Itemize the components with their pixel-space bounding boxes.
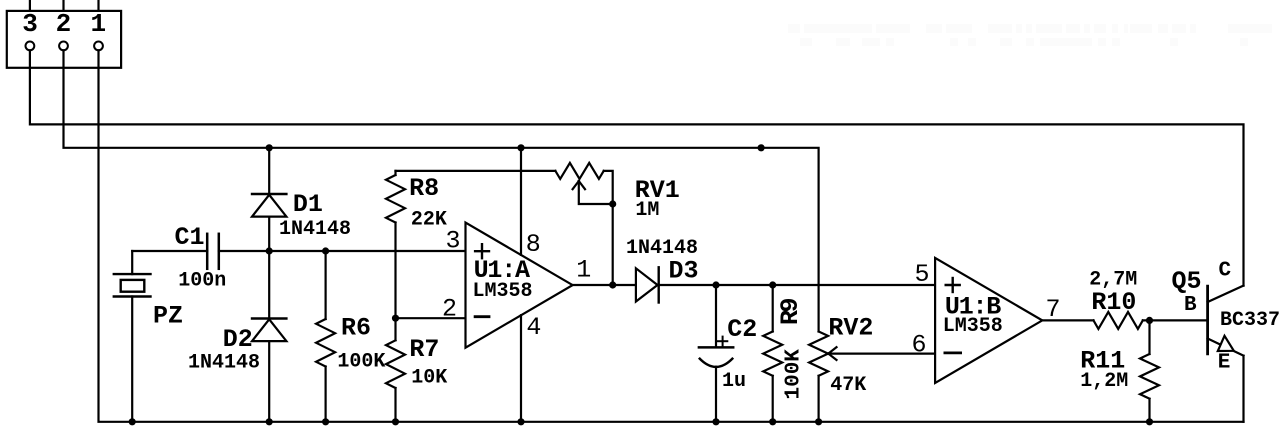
wire U1:A output to D3	[573, 284, 636, 286]
label 100K (R9)	[783, 349, 806, 400]
svg-text:4: 4	[526, 313, 541, 342]
piezo PZ	[114, 274, 151, 422]
op-amp U1:B minus sign	[945, 351, 961, 354]
connector pad 3	[26, 42, 35, 51]
node rail RV2	[815, 418, 822, 425]
svg-text:2: 2	[56, 9, 72, 39]
svg-text:2,7M: 2,7M	[1089, 269, 1137, 292]
wire PZ to C1	[132, 250, 207, 252]
svg-text:1N4148: 1N4148	[626, 237, 698, 260]
label R8	[409, 174, 439, 203]
svg-text:3: 3	[22, 9, 38, 39]
pin number 3 (U1:A)	[445, 227, 460, 256]
wire R10 to Q5 base	[1143, 319, 1208, 321]
node output/C2	[712, 281, 719, 288]
node rail C2	[712, 418, 719, 425]
svg-text:BC337: BC337	[1220, 309, 1280, 332]
label 1,2M	[1080, 370, 1128, 393]
node bus2 mid junction	[758, 144, 765, 151]
svg-text:3: 3	[445, 227, 460, 256]
label RV1	[635, 176, 680, 205]
label 47K	[830, 374, 866, 397]
svg-text:R9: R9	[776, 298, 805, 325]
connector pad 2	[59, 42, 68, 51]
transistor Q5	[1208, 286, 1244, 422]
label 1N4148 (D3)	[626, 237, 698, 260]
svg-text:100n: 100n	[178, 270, 226, 293]
svg-text:2: 2	[442, 295, 457, 324]
pin number 8 (U1:A)	[526, 230, 541, 259]
wire pin2 bus to RV2	[64, 50, 819, 331]
resistor R9	[763, 285, 782, 422]
connector pad 1	[94, 42, 103, 51]
node D1 top / bus2	[266, 144, 273, 151]
wire RV1 to output node	[612, 204, 614, 285]
pin number 2 label	[56, 9, 72, 39]
op-amp U1:A plus sign	[475, 244, 489, 258]
label 1u	[722, 370, 746, 393]
node rail R7	[392, 418, 399, 425]
pin letter C	[1219, 260, 1232, 283]
watermark text (faint)	[788, 24, 1272, 46]
label 100n	[178, 270, 226, 293]
svg-text:100K: 100K	[783, 349, 806, 400]
svg-text:Q5: Q5	[1172, 267, 1202, 296]
wire PZ top lead	[131, 251, 133, 274]
svg-text:PZ: PZ	[153, 301, 183, 330]
pin number 7 (U1:B)	[1046, 295, 1061, 324]
svg-text:D1: D1	[293, 190, 323, 219]
pin number 6 (U1:B)	[911, 331, 926, 360]
pin letter E	[1218, 352, 1231, 375]
svg-text:1: 1	[90, 9, 106, 39]
capacitor C2	[699, 285, 733, 422]
connector pin stub 2	[62, 0, 64, 11]
svg-text:47K: 47K	[830, 374, 866, 397]
label Q5	[1172, 267, 1202, 296]
connector pin stub 3	[29, 0, 31, 11]
label PZ	[153, 301, 183, 330]
wire pin3 to Q5 collector (top bus)	[30, 50, 1244, 285]
node R7/R8 pin2	[392, 315, 399, 322]
svg-text:R6: R6	[341, 314, 371, 343]
node R10/R11	[1146, 317, 1153, 324]
diode D2	[252, 251, 286, 422]
diode D3	[636, 267, 659, 302]
svg-text:1,2M: 1,2M	[1080, 370, 1128, 393]
wire U1:B output to R10	[1042, 319, 1093, 321]
pin 8 stub	[520, 148, 522, 255]
svg-text:1N4148: 1N4148	[188, 351, 260, 374]
svg-text:10K: 10K	[411, 367, 447, 390]
capacitor C1	[207, 234, 219, 269]
label 10K	[411, 367, 447, 390]
potentiometer RV2	[809, 332, 836, 422]
pin letter B	[1184, 294, 1197, 317]
label U1:A	[474, 256, 530, 285]
resistor R7	[386, 318, 405, 422]
op-amp U1:B plus sign	[946, 278, 960, 292]
svg-text:1M: 1M	[635, 199, 659, 222]
label 22K	[411, 208, 447, 231]
resistor R6	[316, 251, 335, 422]
wire R7/R8 node to op-amp pin2	[396, 317, 466, 319]
svg-text:6: 6	[911, 331, 926, 360]
op-amp U1:A	[466, 223, 573, 348]
label R11	[1080, 346, 1125, 375]
node pin8 column / bus2	[517, 144, 524, 151]
node R6 top input	[322, 247, 329, 254]
pin number 5 (U1:B)	[914, 260, 929, 289]
svg-text:1u: 1u	[722, 370, 746, 393]
label 1N4148 (D2)	[188, 351, 260, 374]
node rail R11	[1146, 418, 1153, 425]
svg-text:C: C	[1219, 260, 1232, 283]
label 1M	[635, 199, 659, 222]
node output/R9	[769, 281, 776, 288]
potentiometer RV1	[555, 163, 612, 204]
connector pin stub 1	[97, 0, 99, 11]
pin number 2 (U1:A)	[442, 295, 457, 324]
label D2	[223, 325, 253, 354]
label D3	[669, 257, 699, 286]
svg-text:22K: 22K	[411, 208, 447, 231]
resistor R10	[1094, 312, 1143, 329]
svg-text:D2: D2	[223, 325, 253, 354]
svg-text:E: E	[1218, 352, 1231, 375]
node output/RV1	[609, 281, 616, 288]
connector J1 body	[7, 11, 121, 68]
wire C1 to op-amp pin3	[219, 250, 466, 252]
label C2	[727, 315, 757, 344]
svg-text:R8: R8	[409, 174, 439, 203]
label R9	[776, 298, 805, 325]
label BC337	[1220, 309, 1280, 332]
node rail PZ	[129, 418, 136, 425]
svg-text:R7: R7	[409, 335, 439, 364]
svg-text:C2: C2	[727, 315, 757, 344]
node RV1 wiper junction	[609, 200, 616, 207]
svg-text:C1: C1	[175, 223, 205, 252]
svg-text:RV2: RV2	[828, 314, 873, 343]
resistor R8	[386, 171, 405, 318]
wire pin1 to ground rail	[99, 50, 1244, 422]
pin number 4 (U1:A)	[526, 313, 541, 342]
svg-text:5: 5	[914, 260, 929, 289]
op-amp U1:B	[935, 258, 1042, 383]
svg-text:LM358: LM358	[943, 315, 1003, 338]
pin number 1 label	[90, 9, 106, 39]
label 100K (R6)	[337, 351, 385, 374]
label R6	[341, 314, 371, 343]
label 2,7M	[1089, 269, 1137, 292]
diode D1	[252, 148, 286, 251]
label U1:B	[945, 292, 1001, 321]
capacitor C2 plus mark	[718, 337, 727, 346]
node rail R6	[322, 418, 329, 425]
wire R8 top to RV1 left	[396, 170, 556, 172]
node C1-D1-D2 input	[266, 247, 273, 254]
op-amp U1:A minus sign	[475, 315, 489, 318]
node rail pin4	[517, 418, 524, 425]
wire RV2 wiper to op-amp pin6	[828, 353, 935, 355]
label C1	[175, 223, 205, 252]
pin number 1 (U1:A)	[576, 256, 591, 285]
label 1N4148 (D1)	[279, 218, 351, 241]
resistor R11	[1140, 320, 1159, 421]
label LM358 (U1:B)	[943, 315, 1003, 338]
svg-text:LM358: LM358	[473, 280, 533, 303]
svg-text:1: 1	[576, 256, 591, 285]
svg-text:B: B	[1184, 294, 1197, 317]
label R7	[409, 335, 439, 364]
node rail D2	[266, 418, 273, 425]
svg-text:100K: 100K	[337, 351, 385, 374]
pin number 3 label	[22, 9, 38, 39]
label LM358 (U1:A)	[473, 280, 533, 303]
wire D3 to op-amp pin5	[659, 284, 935, 286]
svg-text:R10: R10	[1091, 288, 1136, 317]
label RV2	[828, 314, 873, 343]
svg-text:D3: D3	[669, 257, 699, 286]
svg-text:8: 8	[526, 230, 541, 259]
label R10	[1091, 288, 1136, 317]
svg-text:1N4148: 1N4148	[279, 218, 351, 241]
node rail R9	[769, 418, 776, 425]
pin 4 stub	[520, 315, 522, 422]
label D1	[293, 190, 323, 219]
